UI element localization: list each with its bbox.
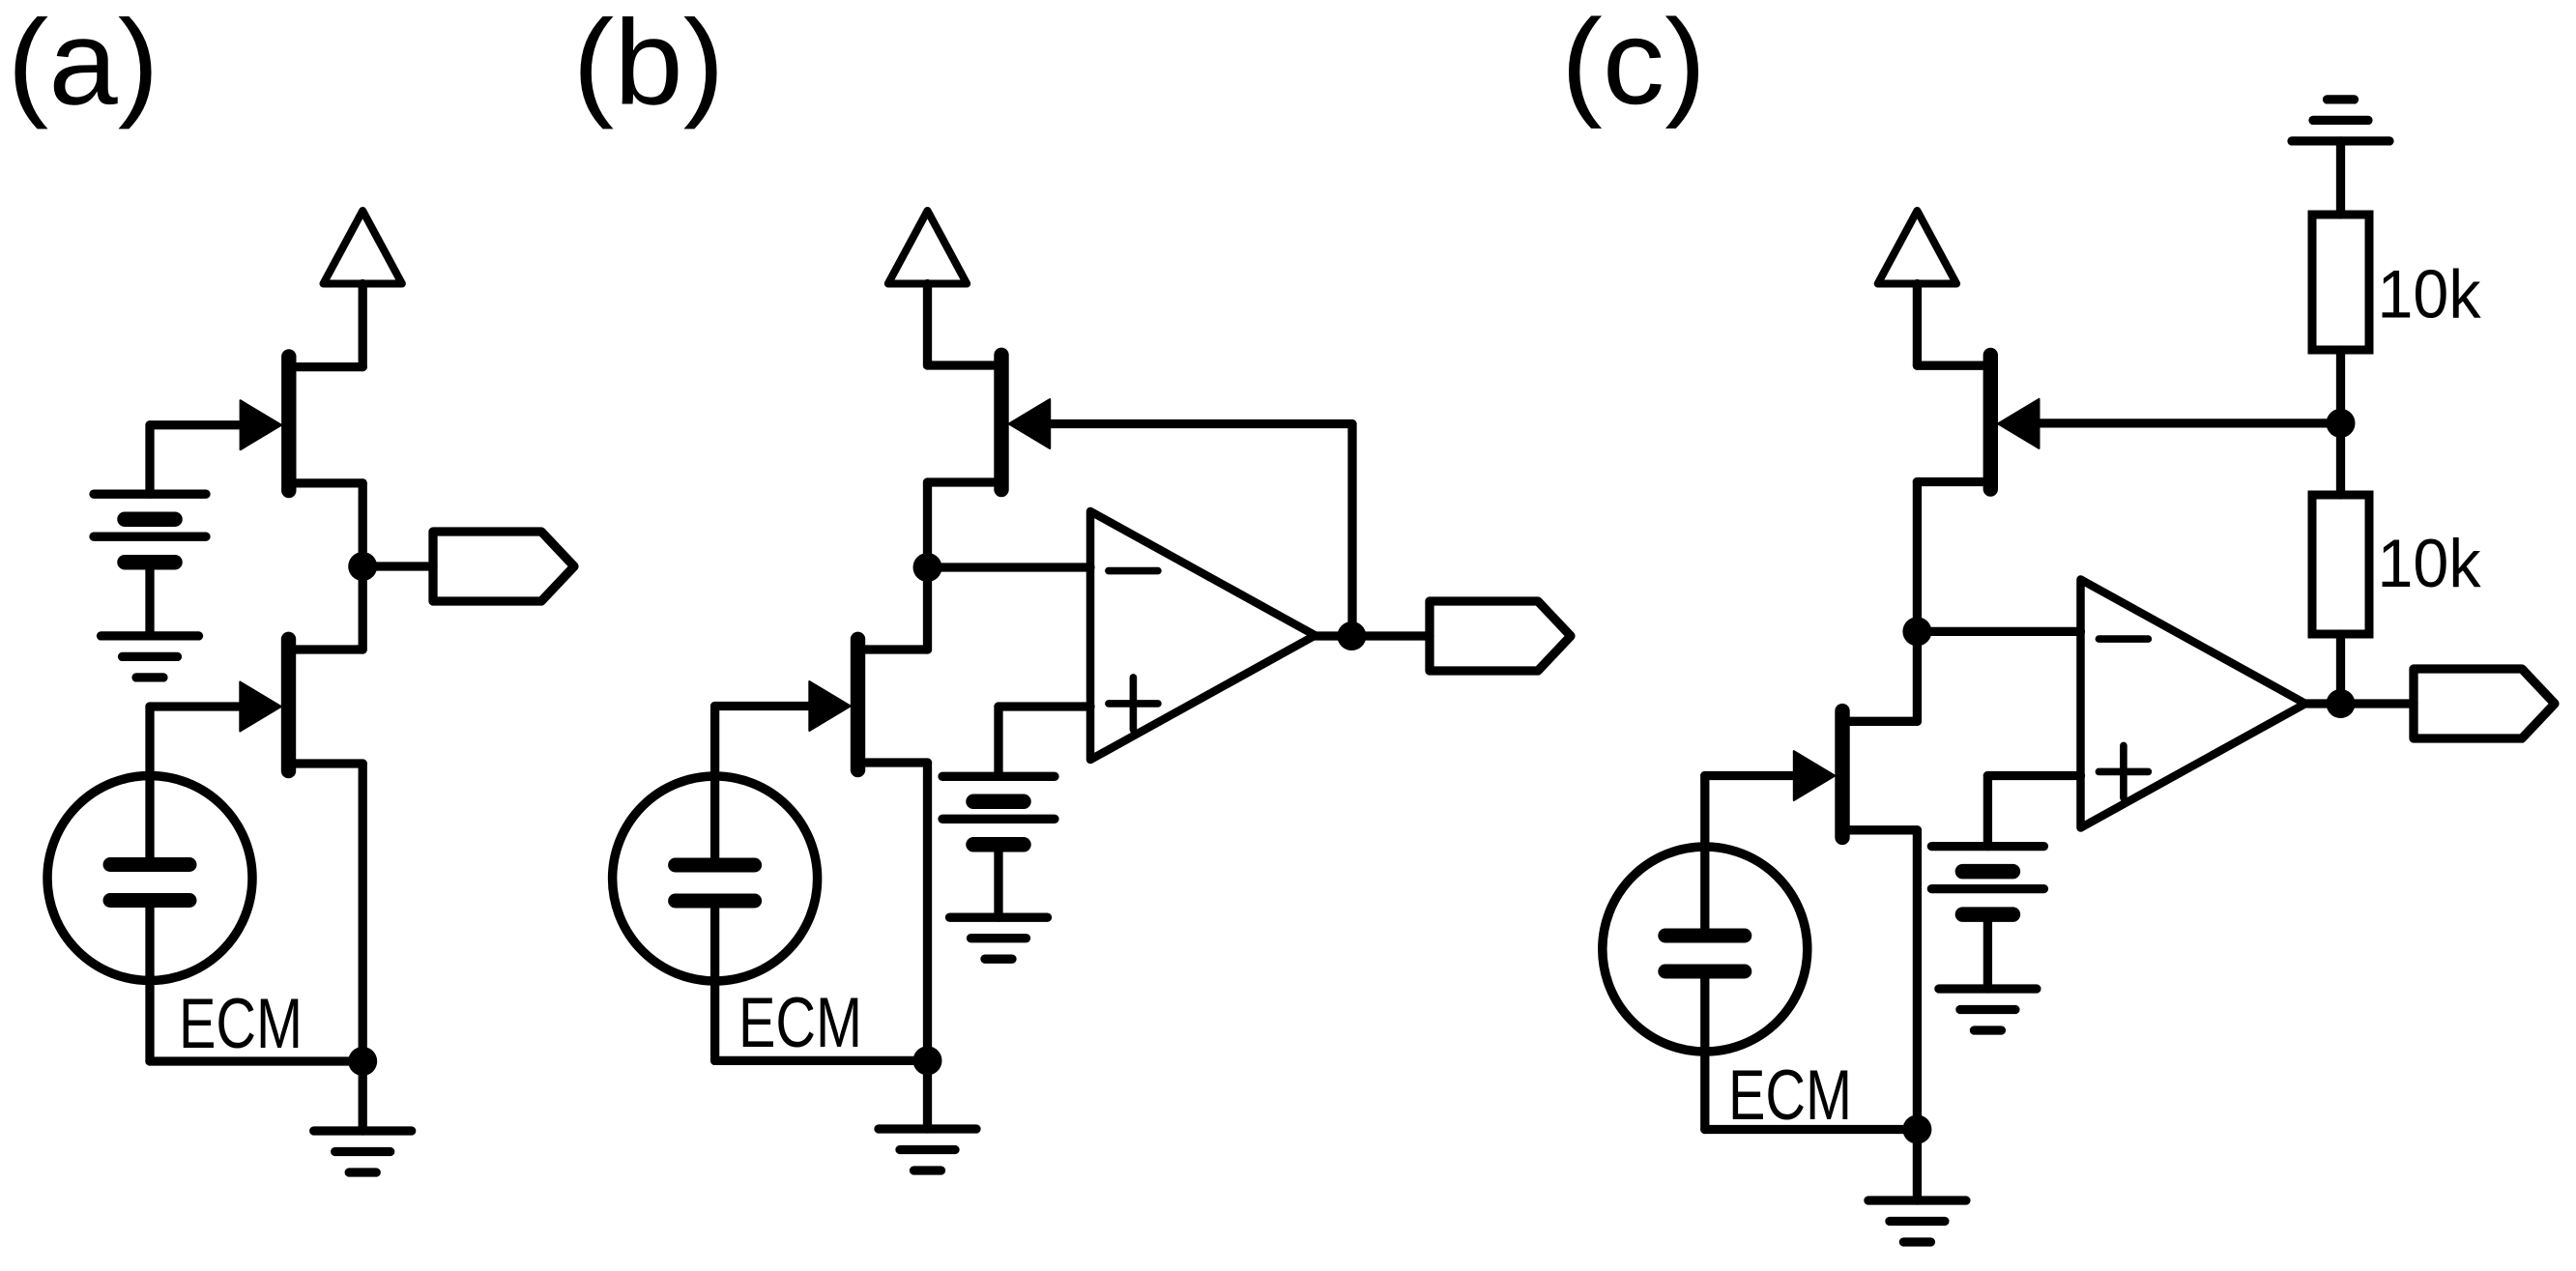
electret mic ECM (c)	[1603, 847, 1808, 1052]
op-amp U1 (b)	[1090, 511, 1316, 760]
node OUT (a)	[348, 552, 377, 581]
wire node to op-amp - (c)	[1917, 627, 2080, 636]
wire node to ground (c)	[1913, 1130, 1922, 1201]
wire Q1 source to node (c)	[1913, 482, 1922, 632]
transistor Q2 (c)	[1794, 711, 1918, 838]
wire ground to R1 (c)	[2336, 141, 2345, 215]
svg-text:(c): (c)	[1561, 0, 1706, 130]
wire gate drop to ECM (a)	[145, 707, 154, 858]
ground under battery (a)	[101, 636, 199, 678]
battery B1 (a)	[94, 494, 206, 563]
node feedback divider (c)	[2327, 409, 2356, 438]
wire + input drop to battery (b)	[994, 707, 1002, 776]
svg-text:(b): (b)	[573, 0, 725, 130]
wire battery to ground (a)	[145, 563, 154, 636]
wire gate drop to battery (a)	[145, 425, 154, 494]
transistor Q2 (a)	[240, 639, 362, 770]
wire Q1 source to node (b)	[923, 482, 932, 567]
wire Q2 source to bottom node (c)	[1913, 830, 1922, 1130]
wire node to op-amp - (b)	[928, 563, 1091, 571]
ground main (b)	[879, 1129, 976, 1170]
electret mic ECM (a)	[47, 776, 252, 981]
node bottom (b)	[913, 1046, 942, 1075]
ground main (c)	[1868, 1200, 1966, 1242]
battery B3 (c)	[1931, 847, 2043, 915]
wire node to ground (a)	[359, 1061, 367, 1131]
wire ECM to bottom rail (a)	[145, 908, 154, 1061]
wire feedback to Q1 gate (b)	[1052, 424, 1352, 637]
resistor R2 (c)	[2312, 495, 2369, 634]
wire supply stem (a)	[359, 284, 367, 367]
wire bottom rail (c)	[1705, 1125, 1918, 1134]
transistor Q2 (b)	[809, 639, 927, 769]
wire op-amp output to node (b)	[1316, 631, 1352, 640]
node bottom (a)	[348, 1047, 377, 1076]
ground main (a)	[314, 1131, 412, 1172]
wire Q2 gate (a)	[150, 702, 253, 710]
wire node to Q2 drain (c)	[1913, 631, 1922, 721]
wire battery to ground (b)	[994, 845, 1002, 917]
wire ECM to bottom rail (b)	[710, 909, 719, 1061]
wire node to Q2 drain (a)	[359, 566, 367, 650]
node output (c)	[2327, 689, 2356, 718]
wire Q1 source to node (a)	[359, 483, 367, 566]
svg-text:ECM: ECM	[179, 985, 303, 1063]
wire + input drop to battery (c)	[1983, 776, 1992, 847]
battery B2 (b)	[942, 776, 1055, 845]
supply arrow V+ (a)	[324, 211, 402, 284]
electret mic ECM (b)	[613, 776, 818, 981]
wire supply stem (c)	[1913, 284, 1922, 366]
wire node to connector (b)	[1351, 631, 1430, 640]
wire op-amp output to node (c)	[2305, 699, 2340, 708]
transistor Q1 (b)	[928, 355, 1051, 489]
output connector OUT (c)	[2414, 669, 2555, 738]
wire bottom rail (b)	[715, 1056, 928, 1065]
node bottom (c)	[1902, 1115, 1931, 1144]
transistor Q1 (a)	[241, 357, 363, 491]
svg-text:(a): (a)	[8, 0, 159, 130]
node inverting input (c)	[1902, 617, 1931, 646]
supply arrow V+ (c)	[1878, 211, 1956, 284]
wire Q2 gate (b)	[715, 702, 822, 710]
wire R2 to output node (c)	[2336, 634, 2345, 704]
svg-text:10k: 10k	[2378, 256, 2482, 332]
transistor Q1 (c)	[1917, 356, 2039, 490]
svg-text:ECM: ECM	[738, 984, 862, 1062]
wire op-amp + input (b)	[999, 702, 1090, 710]
wire bottom rail (a)	[150, 1056, 362, 1065]
wire node to ground (b)	[923, 1060, 932, 1129]
wire feedback to Q1 gate (c)	[2041, 419, 2341, 427]
resistor R1 (c)	[2312, 215, 2369, 350]
wire battery to ground (c)	[1983, 914, 1992, 989]
wire Q2 source to bottom node (a)	[359, 764, 367, 1061]
wire gate drop to ECM (c)	[1700, 776, 1709, 930]
svg-text:ECM: ECM	[1728, 1056, 1852, 1135]
node output (b)	[1337, 621, 1366, 650]
wire gate drop to ECM (b)	[710, 707, 719, 859]
wire ECM to bottom rail (c)	[1700, 979, 1709, 1130]
ground top (flipped) (c)	[2292, 100, 2389, 141]
wire supply stem (b)	[923, 284, 932, 366]
svg-text:10k: 10k	[2378, 525, 2482, 601]
wire R1 to feedback node (c)	[2336, 350, 2345, 423]
wire node to Q2 drain (b)	[923, 567, 932, 650]
output connector OUT (b)	[1430, 601, 1571, 671]
op-amp U2 (c)	[2081, 580, 2306, 828]
wire Q1 gate (a)	[150, 420, 253, 429]
wire node to connector (a)	[362, 562, 433, 570]
wire node to R2 (c)	[2336, 423, 2345, 495]
wire node to connector (c)	[2341, 699, 2415, 708]
wire op-amp + input (c)	[1987, 771, 2080, 780]
wire Q2 gate (c)	[1705, 771, 1808, 780]
output connector OUT (a)	[433, 532, 574, 601]
supply arrow V+ (b)	[888, 211, 967, 284]
ground under battery (b)	[950, 917, 1048, 959]
wire Q2 source to bottom node (b)	[923, 763, 932, 1060]
node inverting input (b)	[913, 553, 942, 582]
ground under battery (c)	[1939, 989, 2037, 1030]
